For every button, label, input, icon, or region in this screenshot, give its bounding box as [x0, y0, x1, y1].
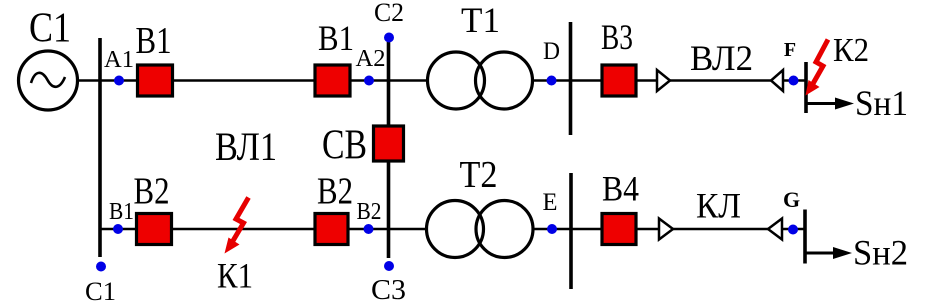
svg-text:Sн1: Sн1 — [855, 83, 908, 123]
svg-text:С2: С2 — [374, 0, 404, 27]
svg-text:Т2: Т2 — [460, 154, 498, 196]
node C2 (top of middle bus) — [384, 33, 394, 43]
node A1 — [114, 76, 124, 86]
svg-text:ВЛ2: ВЛ2 — [690, 38, 753, 78]
load Sn1 arrow — [807, 98, 854, 110]
node C1 (bottom of left bus) — [96, 262, 106, 272]
breaker B4 — [602, 214, 636, 245]
busbar E — [569, 173, 573, 289]
svg-text:СВ: СВ — [322, 123, 367, 169]
wire bus B to transformer T1 — [389, 79, 429, 82]
transformer T2 — [427, 201, 534, 258]
wire B2b to bus B — [348, 228, 389, 231]
wire line ВЛ2 — [670, 79, 771, 82]
wire bus B to transformer T2 — [389, 228, 429, 231]
node E — [547, 224, 557, 234]
wire B4 to cable arrow — [636, 228, 660, 231]
svg-text:F: F — [784, 39, 796, 61]
node A2 — [364, 76, 374, 86]
fault K2 lightning — [806, 40, 829, 96]
svg-text:В1: В1 — [109, 199, 134, 225]
svg-text:В1: В1 — [136, 20, 172, 62]
node F — [789, 76, 799, 86]
wire T1 to bus D — [533, 79, 571, 82]
svg-text:В1: В1 — [318, 18, 354, 58]
wire bus A to breaker B1a — [100, 79, 138, 82]
node D — [547, 76, 557, 86]
breaker B1 (right, top row) — [315, 65, 350, 96]
svg-text:КЛ: КЛ — [696, 186, 741, 226]
bus coupler CB — [374, 126, 404, 161]
svg-text:В2: В2 — [317, 171, 353, 213]
cable КЛ receiving-end arrow — [768, 219, 782, 240]
svg-text:ВЛ1: ВЛ1 — [215, 124, 277, 169]
busbar B (middle) — [387, 42, 391, 258]
fault K1 lightning — [225, 198, 249, 254]
busbar A (left) — [98, 38, 102, 257]
svg-text:В4: В4 — [602, 169, 639, 209]
wire bus D to breaker B3 — [571, 79, 603, 82]
generator C1 — [19, 51, 78, 110]
wire bus E to breaker B4 — [571, 228, 602, 231]
wire generator to bus A — [77, 79, 100, 82]
svg-text:Sн2: Sн2 — [853, 233, 908, 273]
line ВЛ2 receiving-end arrow — [771, 70, 783, 91]
breaker B2 (left, bottom row) — [137, 214, 172, 245]
wire arrow to bus G — [782, 228, 805, 231]
svg-text:В3: В3 — [601, 17, 633, 57]
svg-text:К2: К2 — [833, 32, 869, 69]
svg-text:С1: С1 — [85, 277, 116, 306]
svg-text:В2: В2 — [357, 199, 382, 225]
wire B3 to line arrow — [636, 79, 658, 82]
node G — [788, 225, 798, 235]
node B1 (bottom row, left bus) — [113, 224, 123, 234]
svg-text:А1: А1 — [104, 47, 134, 73]
breaker B1 (left, top row) — [138, 65, 173, 96]
load Sn2 arrow — [806, 247, 852, 259]
busbar D — [569, 22, 573, 135]
cable КЛ sending-end arrow — [659, 219, 673, 240]
transformer T1 — [428, 52, 533, 109]
wire B2a to B2b (line ВЛ1) — [172, 228, 316, 231]
svg-text:С1: С1 — [29, 6, 71, 52]
wire bus A to breaker B2a — [100, 228, 137, 231]
line ВЛ2 sending-end arrow — [657, 70, 670, 91]
wire T2 to bus E — [533, 228, 572, 231]
wire arrow to bus F — [783, 79, 806, 82]
svg-text:В2: В2 — [134, 171, 170, 213]
svg-text:К1: К1 — [217, 256, 253, 296]
svg-text:Т1: Т1 — [461, 0, 500, 40]
svg-text:С3: С3 — [371, 275, 406, 306]
wire B1b to bus B — [350, 79, 389, 82]
breaker B2 (right, bottom row) — [315, 214, 348, 245]
svg-text:А2: А2 — [356, 46, 386, 72]
svg-text:D: D — [543, 38, 560, 65]
node C3 (bottom of middle bus) — [384, 261, 394, 271]
wire cable КЛ — [673, 228, 768, 231]
svg-text:G: G — [783, 187, 800, 212]
svg-text:Е: Е — [543, 189, 558, 216]
wire B1a to B1b — [173, 79, 316, 82]
busbar F — [804, 62, 808, 113]
breaker B3 — [602, 65, 636, 96]
node B2 — [364, 224, 374, 234]
busbar G — [803, 210, 807, 264]
